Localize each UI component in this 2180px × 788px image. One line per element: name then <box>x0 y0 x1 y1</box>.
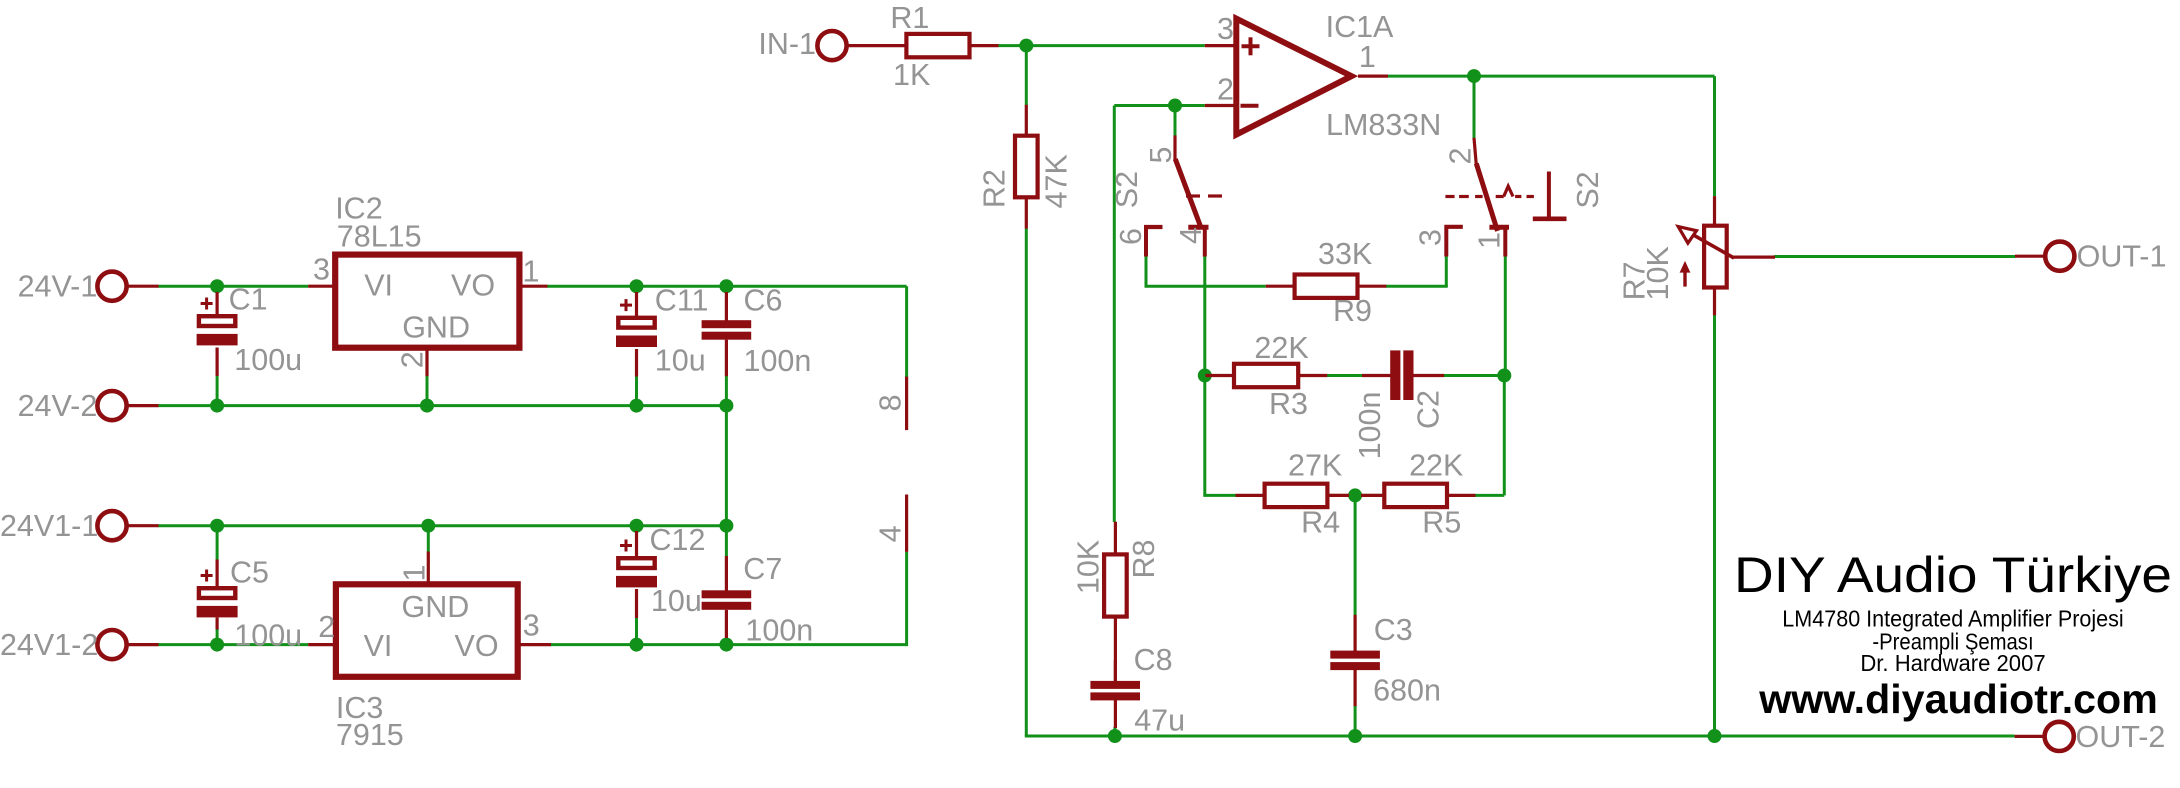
pin R1 right lead <box>970 44 999 47</box>
wire +15V down to pin8 <box>905 286 908 377</box>
svg-text:33K: 33K <box>1318 237 1372 271</box>
wire IN net R1 to node A <box>998 44 1205 47</box>
pin C8 top lead <box>1114 660 1117 682</box>
pin 4 V- stub <box>905 495 908 552</box>
svg-text:100n: 100n <box>744 344 812 378</box>
wire 24V1-2 to IC3 VI <box>158 643 309 646</box>
pin R3 left lead <box>1206 374 1235 377</box>
pin R7 top lead <box>1713 196 1716 226</box>
IC3 box <box>336 584 518 677</box>
svg-text:1: 1 <box>1473 232 1507 249</box>
pin 24V1-2 stub <box>127 643 159 646</box>
wire corner to R5 right <box>1475 494 1505 497</box>
svg-text:www.diyaudiotr.com: www.diyaudiotr.com <box>1758 676 2158 722</box>
pin C5 top lead <box>216 560 219 590</box>
junction ground cross <box>719 519 733 533</box>
wire C11 lower lead <box>635 376 638 406</box>
wire C6 lower lead <box>725 376 728 406</box>
svg-text:R2: R2 <box>977 169 1011 208</box>
svg-text:C12: C12 <box>650 523 706 557</box>
svg-text:22K: 22K <box>1254 331 1308 365</box>
resistor R9 <box>1295 275 1358 298</box>
pin R2 top lead <box>1025 105 1028 136</box>
svg-text:1K: 1K <box>893 58 930 92</box>
junction R3 right node <box>1497 369 1511 383</box>
svg-text:C2: C2 <box>1412 390 1446 429</box>
svg-text:1: 1 <box>398 565 432 582</box>
svg-text:10u: 10u <box>651 584 702 618</box>
svg-text:3: 3 <box>523 608 540 642</box>
wire S2 pin6 to R9 <box>1145 285 1266 288</box>
capacitor C6 <box>702 320 752 340</box>
S2b actuator pole <box>1533 172 1567 219</box>
wire S2 pin6 down <box>1145 256 1148 287</box>
wire S2 pin4 down to R3 node <box>1203 256 1206 376</box>
wire R7 wiper to OUT-1 <box>1774 255 2015 258</box>
junction IC2 GND <box>420 399 434 413</box>
svg-text:7915: 7915 <box>336 718 404 752</box>
svg-text:OUT-1: OUT-1 <box>2077 240 2167 274</box>
svg-text:8: 8 <box>874 394 908 411</box>
wire C1 lower lead <box>216 375 219 406</box>
pin 2 IC3 VI <box>308 643 336 646</box>
resistor R1 <box>906 34 969 57</box>
wire inverting node down to R8 <box>1113 106 1116 523</box>
S2b blade <box>1476 164 1497 232</box>
svg-text:VI: VI <box>364 629 393 663</box>
svg-text:27K: 27K <box>1288 448 1342 482</box>
svg-text:24V-1: 24V-1 <box>18 270 98 304</box>
svg-text:C1: C1 <box>229 283 268 317</box>
terminal OUT-2 <box>2045 722 2074 751</box>
svg-text:R3: R3 <box>1269 387 1308 421</box>
svg-text:VI: VI <box>364 269 393 303</box>
pin 24V1-1 stub <box>127 524 159 527</box>
pin C6 bottom lead <box>725 340 728 377</box>
wire junction to switch pin5 <box>1174 106 1177 137</box>
pin 8 V+ stub <box>905 377 908 431</box>
junction C8 rail <box>1108 729 1122 743</box>
pin R4 left lead <box>1236 494 1265 497</box>
S2b pin2 stub <box>1474 138 1476 165</box>
pin 3 IC3 VO <box>518 643 551 646</box>
svg-text:C8: C8 <box>1134 643 1173 677</box>
svg-text:VO: VO <box>455 629 499 663</box>
svg-text:LM833N: LM833N <box>1326 108 1441 142</box>
wire IC2 VO +15V line <box>547 285 907 288</box>
junction C11 bottom <box>630 399 644 413</box>
wire corner up to S2 pin3 <box>1445 256 1448 286</box>
svg-text:47K: 47K <box>1040 154 1074 208</box>
wire R3 node down to R4 <box>1203 376 1206 496</box>
capacitor C5 <box>197 570 238 618</box>
wire R9 right lead to corner <box>1386 285 1448 288</box>
pin C1 bottom lead <box>216 348 219 377</box>
wire IC2 GND pin to rail <box>426 376 429 406</box>
pin C1 top lead <box>216 292 219 317</box>
pin R3 right lead <box>1298 374 1327 377</box>
wire C3 node down <box>1354 495 1357 615</box>
svg-text:Dr. Hardware 2007: Dr. Hardware 2007 <box>1860 650 2045 676</box>
svg-text:24V1-1: 24V1-1 <box>0 509 98 543</box>
svg-text:100n: 100n <box>1353 392 1387 460</box>
pin R8 bottom lead <box>1114 617 1117 682</box>
terminal 24V-2 <box>97 391 126 420</box>
S2b pin1 pad <box>1489 225 1509 230</box>
pin OUT-1 stub <box>2015 255 2046 258</box>
wire C7 lower lead <box>725 637 728 644</box>
wire C2 right to node <box>1414 374 1505 377</box>
terminal 24V1-2 <box>97 630 126 659</box>
wire R3 right to C2 <box>1298 374 1362 377</box>
S2b dashed link <box>1445 195 1534 198</box>
svg-text:R5: R5 <box>1422 505 1461 539</box>
svg-text:3: 3 <box>313 252 330 286</box>
junction C5 bottom <box>210 638 224 652</box>
capacitor C11 <box>616 299 657 347</box>
svg-text:R4: R4 <box>1301 505 1340 539</box>
terminal OUT-1 <box>2045 242 2074 271</box>
svg-text:IC1A: IC1A <box>1326 10 1394 44</box>
svg-text:3: 3 <box>1217 12 1234 46</box>
junction C7 bottom <box>719 638 733 652</box>
pin C2 left lead <box>1362 374 1391 377</box>
pin 2 op-amp <box>1205 104 1234 107</box>
capacitor C2 <box>1390 350 1413 400</box>
S2a pin6 hook <box>1144 225 1162 257</box>
pin 1 op-amp output <box>1358 74 1388 77</box>
S2a pin4 pad <box>1188 225 1208 230</box>
svg-text:IN-1: IN-1 <box>758 27 816 61</box>
pin C7 top lead <box>725 556 728 591</box>
resistor R2 <box>1015 136 1038 198</box>
resistor R3 <box>1234 364 1298 387</box>
potentiometer R7 wiper <box>1678 227 1775 258</box>
svg-text:3: 3 <box>1414 229 1448 246</box>
pin C6 top lead <box>725 292 728 321</box>
junction C6 bottom <box>719 399 733 413</box>
pin C12 top lead <box>635 531 638 559</box>
resistor R4 <box>1265 484 1328 507</box>
svg-text:R1: R1 <box>890 1 929 35</box>
op-amp minus sign <box>1241 104 1259 108</box>
junction C12 bottom <box>630 638 644 652</box>
pin R8 top lead <box>1114 522 1117 555</box>
svg-text:6: 6 <box>1114 228 1148 245</box>
capacitor C1 <box>197 298 238 346</box>
pin R5 right lead <box>1447 494 1476 497</box>
wire 24V-1 to IC2 VI <box>158 285 309 288</box>
svg-text:680n: 680n <box>1373 674 1441 708</box>
junction C5 top <box>210 519 224 533</box>
pin 3 op-amp <box>1205 44 1234 47</box>
wire C12 upper lead <box>635 526 638 532</box>
op-amp plus sign <box>1242 37 1260 55</box>
svg-text:C5: C5 <box>230 556 269 590</box>
pin R9 right lead <box>1358 285 1387 288</box>
S2b actuator zigzag <box>1504 186 1513 196</box>
junction R7 rail <box>1708 729 1722 743</box>
node A junction R1-R2 <box>1019 39 1033 53</box>
wire C5 upper lead <box>216 526 219 561</box>
S2a blade <box>1175 159 1201 229</box>
pin 24V-1 stub <box>127 285 159 288</box>
wire inverting node to pin2 <box>1114 104 1205 107</box>
svg-text:C11: C11 <box>655 284 709 318</box>
pin C11 top lead <box>635 292 638 319</box>
svg-text:2: 2 <box>1444 148 1478 165</box>
pin R4 right lead <box>1327 494 1349 497</box>
potentiometer R7 body <box>1704 226 1727 288</box>
wire C5 lower lead <box>216 629 219 645</box>
S2b pin1 stub <box>1503 227 1507 256</box>
pin C7 bottom lead <box>725 610 728 638</box>
wire C12 lower lead <box>635 617 638 644</box>
svg-text:R8: R8 <box>1127 540 1161 579</box>
pin 3 IC2 VI <box>308 285 336 288</box>
svg-text:10u: 10u <box>655 343 706 377</box>
svg-text:4: 4 <box>874 525 908 542</box>
svg-text:2: 2 <box>396 351 430 368</box>
wire ground down to 24V1-1 line <box>725 406 728 557</box>
svg-text:47u: 47u <box>1134 704 1185 738</box>
op-amp IC1A triangle <box>1236 19 1351 135</box>
pin 2 IC2 GND <box>425 348 428 377</box>
svg-text:100u: 100u <box>234 619 302 653</box>
capacitor C3 <box>1330 651 1380 671</box>
svg-text:2: 2 <box>318 610 335 644</box>
svg-text:5: 5 <box>1144 147 1178 164</box>
S2a pin4 stub <box>1203 227 1207 256</box>
resistor R5 <box>1384 484 1447 507</box>
svg-text:10K: 10K <box>1071 540 1105 594</box>
svg-text:100n: 100n <box>745 614 813 648</box>
S2b pin3 hook <box>1445 225 1463 257</box>
junction R3 left node <box>1198 369 1212 383</box>
svg-text:100u: 100u <box>234 343 302 377</box>
pin C5 bottom lead <box>216 618 219 630</box>
wire corner to R4 left <box>1203 494 1235 497</box>
svg-text:22K: 22K <box>1409 448 1463 482</box>
pin C12 bottom lead <box>635 589 638 618</box>
svg-text:VO: VO <box>451 269 495 303</box>
pin 24V-2 stub <box>127 404 159 407</box>
junction R4-R5 node <box>1348 488 1362 502</box>
wire 24V1-1 line <box>158 524 727 527</box>
pin 1 IC3 GND <box>427 552 430 585</box>
svg-text:C7: C7 <box>743 552 782 586</box>
wire IC3 VO -15V line <box>551 643 907 646</box>
pin R7 bottom lead <box>1713 288 1716 316</box>
svg-text:GND: GND <box>402 310 470 344</box>
junction C11 top <box>630 279 644 293</box>
potentiometer R7 arrow <box>1680 261 1691 287</box>
wire IC3 GND up lead <box>427 526 430 552</box>
junction C1 top <box>210 279 224 293</box>
IC2 box <box>335 255 519 348</box>
S2a dashed link <box>1186 194 1222 197</box>
svg-text:C6: C6 <box>744 284 783 318</box>
wire node A down to R2 <box>1025 46 1028 105</box>
pin IN-1 to R1 <box>847 44 907 47</box>
svg-text:24V1-2: 24V1-2 <box>0 628 98 662</box>
capacitor C7 <box>702 590 752 610</box>
wire R4-R5 row <box>1264 494 1385 497</box>
pin R9 left lead <box>1266 285 1295 288</box>
svg-text:OUT-2: OUT-2 <box>2076 720 2166 754</box>
junction C3 rail <box>1348 729 1362 743</box>
pin C8 bottom lead <box>1114 699 1117 728</box>
wire R3 node down to R5 corner <box>1503 376 1506 496</box>
terminal 24V1-1 <box>97 511 126 540</box>
wire opamp output <box>1387 75 1714 78</box>
resistor R8 <box>1104 554 1127 616</box>
junction IC3 GND <box>421 519 435 533</box>
svg-text:24V-2: 24V-2 <box>18 389 98 423</box>
junction opamp output <box>1467 69 1481 83</box>
S2a pin5 stub <box>1173 135 1176 160</box>
svg-text:1: 1 <box>523 255 540 289</box>
terminal IN-1 <box>817 31 846 60</box>
junction C12 top <box>630 519 644 533</box>
svg-text:S2: S2 <box>1571 171 1605 208</box>
wire R7 bottom to rail <box>1713 315 1716 736</box>
pin OUT-2 stub <box>2015 735 2043 738</box>
wire ground rail 24V-2 <box>158 404 727 407</box>
terminal 24V-1 <box>97 272 126 301</box>
svg-text:2: 2 <box>1217 73 1234 107</box>
svg-text:GND: GND <box>402 590 470 624</box>
svg-text:4: 4 <box>1174 227 1208 244</box>
svg-text:R9: R9 <box>1333 294 1372 328</box>
wire output down to S2 pin2 <box>1473 76 1476 138</box>
svg-text:C3: C3 <box>1374 613 1413 647</box>
junction C6 top <box>719 279 733 293</box>
wire R2 bottom to ground rail <box>1025 228 1028 736</box>
junction inverting input <box>1168 99 1182 113</box>
wire C8 bottom lead <box>1113 727 1116 736</box>
junction C1 bottom <box>210 399 224 413</box>
svg-text:DIY Audio Türkiye: DIY Audio Türkiye <box>1734 547 2172 603</box>
capacitor C12 <box>616 540 657 588</box>
pin C2 right lead <box>1413 374 1444 377</box>
capacitor C8 <box>1090 681 1140 701</box>
pin C3 top lead <box>1353 615 1356 652</box>
svg-text:1: 1 <box>1359 40 1376 74</box>
wire output down to R7 <box>1713 76 1716 196</box>
pin R5 left lead <box>1361 494 1384 497</box>
svg-text:S2: S2 <box>1110 171 1144 208</box>
pin C11 bottom lead <box>635 349 638 377</box>
wire bottom ground rail <box>1025 735 2015 738</box>
pin C3 bottom lead <box>1353 670 1356 707</box>
svg-text:10K: 10K <box>1641 246 1675 300</box>
wire -15V up to pin4 <box>905 552 908 646</box>
wire C3 bottom to rail <box>1354 706 1357 736</box>
pin R2 bottom lead <box>1025 197 1028 229</box>
wire S2 pin1 down to R3 node <box>1504 256 1507 376</box>
svg-text:78L15: 78L15 <box>337 220 422 254</box>
pin 1 IC2 VO <box>519 285 547 288</box>
